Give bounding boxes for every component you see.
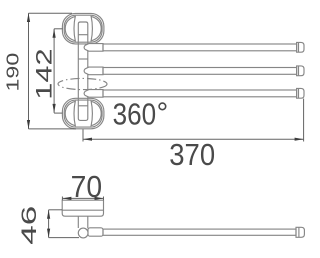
arm 3 end cap bbox=[297, 88, 304, 98]
svg-text:190: 190 bbox=[3, 53, 23, 92]
top flange inner rim bbox=[64, 15, 102, 42]
arm 3 end cap inner line bbox=[298, 88, 300, 98]
arm 3 pivot collar bbox=[84, 90, 103, 98]
dimension 370 left extension line bbox=[82, 129, 84, 141]
arrow 46 top bbox=[47, 210, 50, 219]
arm 3 tube bbox=[103, 90, 297, 97]
bottom flange left lobe bbox=[65, 101, 75, 125]
svg-text:70: 70 bbox=[71, 170, 102, 204]
dimension 370 right extension line bbox=[303, 99, 305, 142]
arrow 46 bottom bbox=[47, 229, 50, 238]
bottom view arm end cap inner line bbox=[298, 227, 300, 237]
arm 1 pivot collar bbox=[84, 44, 103, 52]
rotation ellipse (dash-dot) bbox=[58, 78, 107, 89]
dimension 70 left extension line bbox=[61, 197, 63, 201]
dimension 46 top extension line bbox=[49, 209, 63, 211]
dimension 70 line bbox=[62, 197, 103, 199]
post (vertical tube) bbox=[78, 22, 88, 120]
svg-text:46: 46 bbox=[18, 206, 42, 245]
svg-text:370: 370 bbox=[169, 139, 215, 173]
arrow 70 right bbox=[95, 197, 104, 200]
dimension 190 line bbox=[28, 13, 30, 129]
arrow 142 top bbox=[53, 29, 56, 38]
bottom view arm collar bbox=[88, 228, 103, 236]
bottom flange inner rim bbox=[64, 100, 102, 127]
svg-text:360: 360 bbox=[113, 98, 156, 132]
bottom view post bbox=[77, 216, 79, 228]
arrow 190 top bbox=[27, 13, 30, 22]
dimension 142 line bbox=[53, 29, 55, 113]
arrow 70 left bbox=[62, 197, 71, 200]
arm 1 end cap bbox=[297, 42, 304, 52]
top flange outer outline bbox=[62, 13, 104, 44]
arm 2 end cap bbox=[297, 66, 304, 76]
arrow 142 bottom bbox=[53, 104, 56, 113]
arm 1 tube bbox=[103, 44, 297, 51]
arrow 370 left bbox=[83, 138, 92, 141]
label 360 degree symbol bbox=[159, 103, 166, 110]
bottom view arm end cap bbox=[296, 227, 304, 237]
bottom flange outer outline bbox=[62, 98, 104, 129]
bottom view arm tube bbox=[103, 229, 296, 235]
arm 2 tube bbox=[103, 68, 297, 75]
svg-text:142: 142 bbox=[32, 48, 57, 99]
post joint line between arm1 and arm2 bbox=[78, 58, 88, 60]
bottom view wall plate bbox=[62, 200, 103, 216]
dimension 142 top extension line bbox=[54, 28, 63, 30]
dimension 190 bottom extension line bbox=[29, 128, 77, 130]
top flange left lobe bbox=[65, 16, 75, 40]
arm 2 pivot collar bbox=[84, 67, 103, 75]
arm 2 end cap inner line bbox=[298, 66, 300, 76]
dimension 46 bottom extension line bbox=[49, 237, 79, 239]
arrow 190 bottom bbox=[27, 120, 30, 129]
dimension 142 bottom extension line bbox=[54, 112, 62, 114]
top flange right lobe bbox=[91, 16, 101, 40]
post joint line at bottom flange bbox=[78, 105, 88, 107]
bottom flange right lobe bbox=[91, 101, 101, 125]
post joint line inside top flange bbox=[78, 34, 88, 36]
dimension 370 line bbox=[83, 138, 304, 140]
arrow 370 right bbox=[295, 138, 304, 141]
bottom view pivot circle bbox=[78, 228, 88, 238]
arm 1 end cap inner line bbox=[298, 42, 300, 52]
dimension 46 line bbox=[48, 210, 50, 238]
dimension 70 right extension line bbox=[103, 197, 105, 201]
bottom view wall plate inner line bbox=[62, 209, 103, 211]
dimension 190 top extension line bbox=[29, 12, 73, 14]
